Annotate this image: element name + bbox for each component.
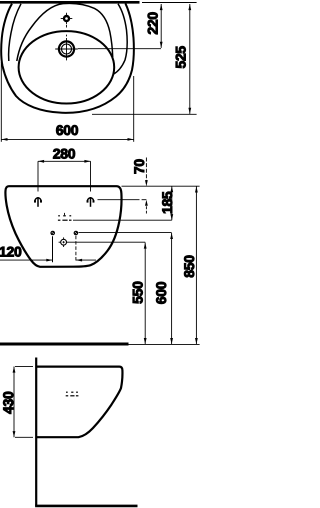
dim 600 top view	[0, 62, 2, 142]
front outline	[5, 186, 121, 267]
dim 70	[145, 158, 147, 186]
svg-text:220: 220	[144, 12, 160, 35]
wall top edge	[0, 1, 140, 4]
drain leader	[69, 241, 146, 243]
overflow leader	[73, 219, 172, 221]
overflow side dashes	[66, 392, 79, 396]
svg-text:430: 430	[0, 391, 16, 414]
dim 550	[144, 243, 146, 345]
small hole right	[74, 231, 77, 234]
drain top view	[59, 41, 74, 56]
dim 185	[171, 186, 173, 220]
drain front	[61, 239, 67, 245]
faucet hole	[64, 16, 69, 21]
wall line	[35, 358, 37, 506]
svg-text:120: 120	[0, 244, 22, 260]
small hole left	[51, 231, 54, 234]
top edge extension front	[122, 185, 200, 187]
svg-text:850: 850	[181, 255, 197, 278]
svg-text:185: 185	[159, 191, 175, 214]
rim inner edge left	[9, 4, 21, 61]
floor line side	[35, 505, 137, 508]
rim inner edge right	[113, 4, 127, 75]
outer contour	[1, 3, 134, 112]
dim 120	[0, 259, 52, 261]
svg-text:600: 600	[56, 122, 79, 138]
centerline dash faucet-drain	[66, 25, 68, 28]
mounting hole left	[35, 197, 41, 207]
svg-text:550: 550	[129, 281, 145, 304]
side profile	[36, 367, 122, 438]
dim 220	[160, 4, 162, 48]
bottom extension line of top view	[92, 113, 197, 115]
svg-text:525: 525	[172, 46, 188, 69]
floor extension	[129, 343, 200, 345]
dim 280	[37, 161, 39, 191]
dim 850	[195, 186, 197, 344]
vertical ext below small holes	[52, 236, 54, 262]
mounting hole right	[88, 197, 94, 207]
drain leader	[78, 48, 161, 50]
dim 430	[15, 365, 33, 367]
dim 600 front	[171, 233, 173, 344]
svg-text:280: 280	[53, 146, 76, 162]
mounting holes leader	[98, 199, 140, 201]
inner oval bowl	[19, 31, 115, 103]
overflow front dashes	[58, 216, 72, 220]
svg-text:70: 70	[131, 159, 147, 174]
floor line front	[0, 343, 129, 346]
deck edge arc	[17, 3, 113, 61]
small holes leader	[79, 232, 172, 234]
top extension line	[142, 2, 197, 4]
svg-text:600: 600	[153, 281, 169, 304]
dim 525	[189, 4, 191, 114]
